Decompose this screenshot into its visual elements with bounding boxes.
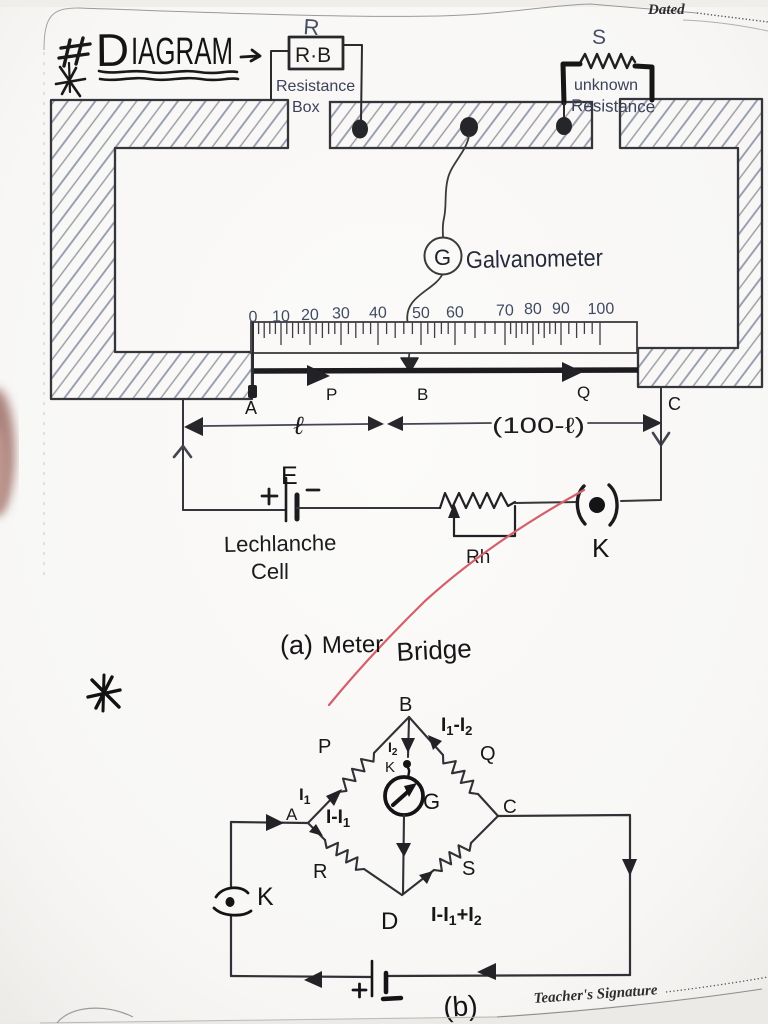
arrow down on GD wire [396, 843, 411, 857]
svg-text:A: A [286, 805, 298, 824]
wavy wire from galvanometer down to bridge wire at B [407, 275, 442, 357]
galvanometer circle G [425, 238, 462, 275]
terminal dot 1 on board [352, 120, 368, 139]
svg-text:G: G [434, 245, 451, 270]
bottom page edge curve right [497, 989, 762, 1017]
svg-text:B: B [417, 385, 428, 404]
outer loop bottom wire [231, 975, 630, 977]
battery plus sign [262, 489, 277, 504]
small current arrow near A on AD [309, 824, 323, 836]
arrow after heading [241, 56, 258, 57]
svg-text:40: 40 [369, 305, 387, 322]
key K: right arc [609, 485, 617, 525]
outer loop left vertical [230, 822, 232, 976]
bottom wire arrow left (west of battery) [304, 971, 322, 988]
top shadow strip above page edge [0, 0, 768, 7]
small key dot [403, 760, 411, 768]
svg-text:Cell: Cell [251, 559, 289, 584]
rheostat Rh zigzag [440, 493, 515, 508]
bottom wire arrow right [477, 963, 496, 980]
svg-text:S: S [462, 858, 475, 880]
wavy wire from dot2 down to galvanometer [443, 136, 469, 237]
svg-text:Dated: Dated [647, 2, 685, 18]
svg-text:P: P [318, 736, 331, 758]
resistor P zigzag [338, 753, 374, 792]
dimension line left arrow [184, 417, 203, 436]
svg-text:S: S [592, 26, 606, 49]
svg-text:E: E [281, 462, 298, 490]
ruler tick marks [253, 322, 600, 345]
down chevron under C [653, 433, 669, 445]
hash mark [59, 38, 90, 66]
red correction line [329, 490, 584, 705]
ruler body [251, 322, 637, 353]
svg-text:Q: Q [480, 743, 496, 765]
svg-text:D: D [381, 908, 398, 935]
unknown resistance right bracket [635, 66, 652, 100]
svg-text:20: 20 [301, 307, 319, 324]
current arrow on DC toward C [419, 871, 433, 884]
svg-text:30: 30 [332, 305, 350, 322]
side BC with resistor Q [409, 717, 443, 755]
battery bottom plus [353, 984, 366, 997]
dimension middle facing arrowheads [368, 416, 384, 431]
soft paper shading [0, 0, 1, 1]
key K dot [226, 897, 235, 907]
bridge wire (thick) [253, 370, 638, 371]
wire from R.B box right to terminal dot [343, 45, 362, 122]
up arrow chevron on left wire [174, 446, 191, 457]
galvanometer G circle [385, 777, 423, 815]
svg-text:(100-ℓ): (100-ℓ) [492, 413, 585, 438]
key K bottom arc [214, 908, 251, 915]
bottom page edge faint left [40, 1017, 497, 1023]
bottom wire left section [183, 509, 285, 511]
needle arrow inside G [393, 789, 411, 805]
dimension line right arrow [643, 414, 662, 432]
asterisk star top-left [56, 63, 85, 96]
svg-text:A: A [245, 398, 257, 418]
arrow I2 down [401, 738, 415, 753]
rheostat slider arrow [453, 517, 455, 536]
wire rheostat to key [515, 502, 578, 503]
svg-text:B: B [399, 694, 412, 716]
bottom-left page curl arc [57, 1008, 133, 1023]
arrow P on wire [307, 365, 330, 386]
key K: contact dot [589, 497, 605, 513]
wire into node A (left horizontal) [231, 822, 308, 823]
svg-text:K: K [592, 533, 610, 563]
dimension line right segment [403, 423, 491, 424]
svg-text:60: 60 [446, 304, 464, 321]
svg-text:K: K [257, 883, 274, 911]
svg-text:Q: Q [577, 383, 590, 402]
current arrow I1 on AB [326, 789, 342, 806]
arrow toward A [266, 814, 284, 831]
svg-text:Box: Box [292, 99, 320, 116]
side AD with resistor R [308, 823, 325, 840]
key K (tap key) on left wire: top arc [216, 888, 248, 897]
resistor Q zigzag [443, 755, 478, 794]
terminal dot 2 on board [460, 117, 478, 137]
arrow Q on wire [562, 362, 583, 382]
wavy double underline [99, 71, 237, 73]
svg-text:Lechlanche: Lechlanche [224, 530, 337, 557]
battery minus sign [307, 489, 319, 492]
scale numbers 0-100 [248, 300, 614, 326]
dotted rule after Dated [697, 13, 768, 22]
wooden board middle top bar (hatched) [330, 102, 592, 148]
left circuit wire down from board [182, 399, 184, 510]
svg-text:G: G [423, 789, 440, 814]
svg-text:ℓ: ℓ [293, 411, 304, 440]
svg-text:R·B: R·B [295, 44, 331, 67]
left end post of wire with terminal A [252, 322, 254, 396]
svg-text:(a): (a) [280, 630, 313, 660]
battery E: short thick plate [295, 495, 300, 519]
current arrow on BC near B [428, 735, 442, 750]
svg-text:C: C [668, 394, 681, 414]
key K: left arc [577, 486, 585, 524]
svg-text:90: 90 [552, 300, 570, 317]
galvanometer branch B to D [408, 719, 409, 757]
svg-text:R: R [313, 861, 327, 883]
page top-left rounded corner [44, 8, 78, 50]
svg-text:80: 80 [524, 301, 542, 318]
outer loop right: C to right edge and down [498, 815, 630, 975]
svg-text:K: K [385, 759, 395, 776]
right circuit wire down from board [621, 387, 661, 501]
dimension line left segment [203, 424, 368, 426]
rheostat slider bracket [454, 506, 515, 536]
battery bottom minus dash [383, 998, 401, 999]
page curl line top-right [683, 20, 768, 31]
side AB with resistor P [308, 792, 338, 823]
svg-text:Galvanometer: Galvanometer [466, 245, 603, 274]
finger blur at left edge [0, 388, 15, 516]
svg-text:Resistance: Resistance [571, 96, 655, 116]
terminal dot 3 on board with stem to S bracket [563, 103, 565, 120]
area below bottom page edge slightly gray [0, 987, 768, 1024]
wire battery to rheostat [297, 507, 440, 509]
svg-text:unknown: unknown [574, 77, 638, 94]
unknown resistance left bracket [563, 64, 580, 103]
svg-text:Meter: Meter [322, 631, 384, 659]
battery E: long plate [285, 478, 288, 521]
svg-text:Resistance: Resistance [276, 78, 355, 95]
dimension right segment 2 [588, 422, 643, 424]
asterisk star mid-left [88, 675, 120, 711]
svg-text:Bridge: Bridge [396, 633, 473, 667]
unknown resistance zigzag [580, 54, 635, 68]
wooden board right bracket (top-right bar + right column + bottom-right strip, hatched) [620, 99, 762, 387]
svg-text:IAGRAM: IAGRAM [131, 31, 233, 73]
arrowhead pointing down onto wire at B [401, 358, 418, 372]
resistor S zigzag [434, 843, 471, 871]
svg-text:D: D [96, 24, 130, 76]
arrow down on right vertical [622, 859, 637, 876]
page top edge line [78, 4, 697, 16]
resistor R zigzag [325, 840, 364, 870]
svg-text:100: 100 [587, 301, 614, 318]
wire G to D [403, 815, 404, 893]
resistance box R.B [289, 37, 343, 69]
battery bottom: long plate [371, 961, 374, 996]
left page margin dashed edge [43, 52, 45, 580]
battery bottom: short plate [384, 973, 389, 992]
svg-text:P: P [326, 385, 337, 404]
svg-text:70: 70 [496, 302, 514, 319]
svg-text:50: 50 [412, 305, 430, 322]
side DC with resistor S [402, 870, 434, 895]
wire from R.B box left to board [271, 51, 289, 100]
wooden board left bracket (top-left bar + left column + bottom-left strip, hatched) [51, 100, 288, 399]
dotted signature line [666, 977, 768, 992]
